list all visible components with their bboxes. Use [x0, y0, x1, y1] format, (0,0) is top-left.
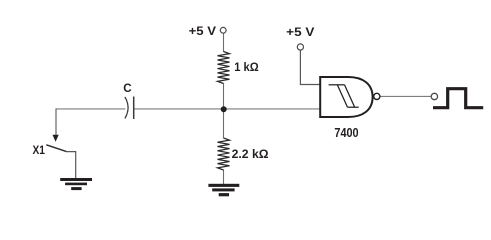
wire: switch contact to ground: [66, 152, 76, 179]
wire: resistor R1 bottom to node A: [223, 83, 225, 109]
svg-text:7400: 7400: [334, 126, 358, 140]
wire: +5V terminal 2 down and right to gate top input: [300, 50, 320, 84]
wire: main horizontal right segment (capacitor to gate): [134, 108, 320, 110]
gate output bubble: [374, 93, 380, 99]
wire: gate output to pulse terminal: [380, 95, 431, 97]
pulse input terminal circle: [431, 93, 437, 99]
node A junction dot: [221, 106, 227, 112]
svg-text:X1: X1: [33, 143, 46, 157]
wire: left vertical drop to switch arrow: [55, 108, 57, 136]
wire: node A down to resistor R2: [223, 109, 225, 138]
svg-text:+5 V: +5 V: [286, 25, 314, 39]
+5V supply 1 terminal circle: [220, 27, 226, 33]
wire: main horizontal left segment (corner to capacitor): [56, 108, 125, 110]
wire: resistor R2 bottom to ground: [223, 170, 225, 184]
svg-text:+5 V: +5 V: [189, 24, 216, 38]
resistor R1 1 kΩ zigzag: [218, 52, 230, 84]
wire: +5V terminal 1 down to resistor R1: [223, 34, 225, 52]
Schmitt trigger hysteresis symbol inside gate: [329, 85, 359, 107]
capacitor C curved plate: [125, 97, 128, 119]
capacitor C straight plate: [133, 97, 135, 120]
op NAND gate U1 body: [320, 77, 372, 117]
ground symbol under resistor R2: [208, 184, 239, 197]
+5V supply 2 terminal circle: [297, 44, 303, 50]
pulse waveform symbol: [433, 89, 483, 108]
switch arrow head: [53, 135, 59, 142]
svg-text:C: C: [123, 83, 131, 95]
resistor R2 2.2 kΩ zigzag: [218, 138, 230, 170]
svg-text:2.2 kΩ: 2.2 kΩ: [232, 147, 269, 161]
ground symbol under switch: [60, 178, 92, 190]
switch X1 blade: [46, 145, 66, 152]
svg-text:1 kΩ: 1 kΩ: [234, 60, 259, 74]
